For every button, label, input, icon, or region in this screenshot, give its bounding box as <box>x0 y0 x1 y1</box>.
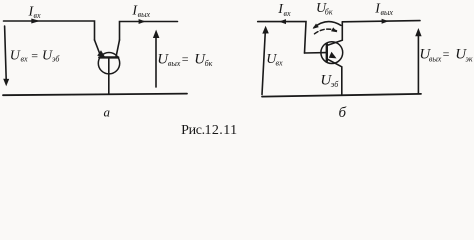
wire: circuit b U_vx measuring arrow line <box>262 32 265 95</box>
wire: circuit b top-right output wire <box>342 21 420 22</box>
svg-text:б: б <box>339 105 347 121</box>
wire: circuit a top-left input wire <box>4 21 95 40</box>
svg-text:бк: бк <box>325 8 333 17</box>
wire: circuit a U_vx measuring arrow line <box>5 26 7 80</box>
svg-text:эб: эб <box>331 80 339 89</box>
wire: circuit a top-right output wire <box>120 22 178 41</box>
svg-text:вых: вых <box>381 8 394 17</box>
arrowhead: circuit b U_vx arrow pointing up <box>262 26 269 34</box>
wire: circuit b bottom common rail <box>262 94 421 97</box>
arrowhead: solid curved arrow tip (pointing down-left) <box>313 24 319 29</box>
svg-text:=: = <box>181 52 189 66</box>
arrowhead: dashed curved arrow tip (pointing down-right) <box>331 27 337 32</box>
svg-text:эб: эб <box>52 55 60 64</box>
transistor VT2 base bar <box>326 44 328 61</box>
wire: circuit a bottom common rail <box>3 94 187 96</box>
svg-text:вых: вых <box>168 59 181 68</box>
wire: circuit b emitter lead <box>327 59 342 95</box>
svg-text:эк: эк <box>465 55 473 64</box>
svg-text:вх: вх <box>276 59 283 68</box>
svg-text:=: = <box>31 48 39 62</box>
svg-text:вых: вых <box>429 55 442 64</box>
arrowhead: VT2 emitter arrow (PNP) <box>329 52 337 59</box>
wire: circuit a base lead to rail <box>108 58 110 95</box>
wire: circuit a U_vyx measuring arrow line <box>155 37 157 88</box>
svg-text:12.11: 12.11 <box>205 123 238 138</box>
svg-text:Рис.: Рис. <box>181 123 205 138</box>
arrowhead: I_vx current arrow (circuit a, pointing right) <box>31 19 40 24</box>
svg-text:а: а <box>104 105 111 120</box>
svg-text:=: = <box>442 47 450 61</box>
transistor VT1 circle (PNP, circuit a) <box>98 53 119 74</box>
wire: circuit a emitter slant lead <box>95 40 102 57</box>
arrowhead: I_vx current arrow (circuit b, pointing left) <box>279 19 286 24</box>
svg-text:вх: вх <box>284 9 291 18</box>
svg-text:вх: вх <box>21 55 28 64</box>
arrowhead: circuit b U_vyx arrow pointing up <box>415 28 421 36</box>
wire: circuit b top-left input wire <box>258 22 306 53</box>
svg-text:U: U <box>10 48 21 63</box>
transistor VT2 circle (PNP, circuit b) <box>321 42 343 64</box>
svg-text:бк: бк <box>205 59 213 68</box>
transistor VT1 base bar <box>99 56 118 58</box>
wire: circuit b collector lead <box>327 22 343 46</box>
svg-text:вых: вых <box>138 10 151 19</box>
wire: circuit b base lead horizontal <box>305 52 327 54</box>
arrowhead: circuit a U_vx arrow pointing down <box>3 79 9 86</box>
wire: circuit b U_vyx measuring arrow line <box>417 35 419 93</box>
wire: circuit a collector slant lead <box>116 40 120 57</box>
svg-text:вх: вх <box>34 11 41 20</box>
arrowhead: I_vyx current arrow (circuit a, pointing right) <box>139 19 146 24</box>
wire: circuit b dashed curved arrow U_bk <box>315 29 337 34</box>
wire: circuit b solid curved arrow U_bk <box>314 22 341 28</box>
arrowhead: I_vyx current arrow (circuit b, pointing right) <box>382 19 389 24</box>
arrowhead: circuit a U_vyx arrow pointing up <box>153 30 160 38</box>
arrowhead: VT1 emitter arrow (PNP) <box>97 50 105 57</box>
